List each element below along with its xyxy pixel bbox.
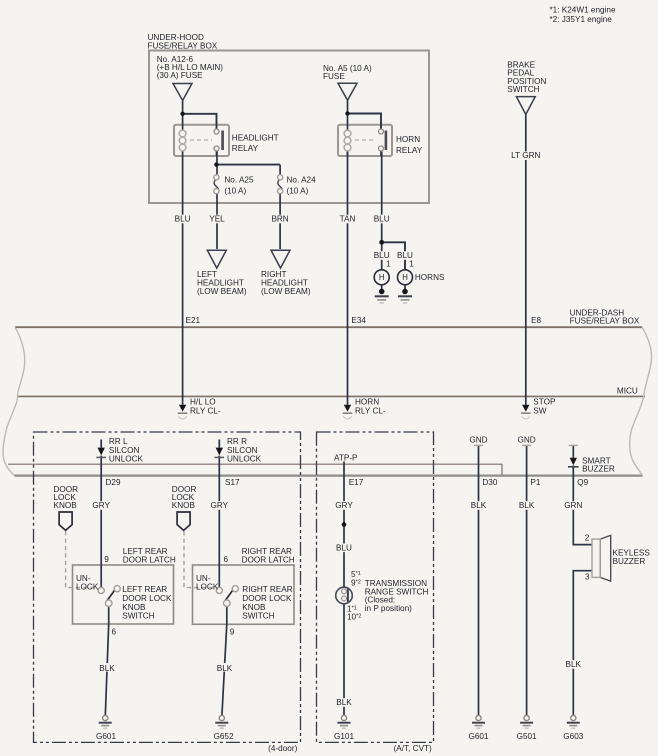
svg-text:UNLOCK: UNLOCK [109,454,144,463]
svg-text:(4-door): (4-door) [268,744,297,753]
svg-text:2: 2 [585,534,590,543]
svg-text:DOOR LOCK: DOOR LOCK [242,594,292,603]
svg-text:UNLOCK: UNLOCK [227,454,262,463]
svg-text:E34: E34 [351,316,366,325]
svg-text:RELAY: RELAY [232,144,259,153]
svg-text:No. A25: No. A25 [224,175,254,184]
svg-text:BUZZER: BUZZER [613,557,646,566]
svg-text:MICU: MICU [617,387,638,396]
svg-text:(10 A): (10 A) [224,186,246,195]
svg-text:*2: J35Y1 engine: *2: J35Y1 engine [550,15,613,24]
svg-text:RLY CL-: RLY CL- [190,406,221,415]
svg-text:S17: S17 [225,478,240,487]
svg-text:LOCK: LOCK [76,582,99,591]
svg-text:*1: K24W1 engine: *1: K24W1 engine [550,5,616,14]
svg-text:GND: GND [517,435,535,444]
svg-text:BLK: BLK [471,501,487,510]
svg-text:9: 9 [230,628,235,637]
svg-text:SW: SW [533,406,546,415]
svg-text:YEL: YEL [209,215,225,224]
svg-text:Q9: Q9 [577,478,588,487]
svg-text:GRY: GRY [335,501,353,510]
svg-text:RELAY: RELAY [396,146,423,155]
svg-text:G101: G101 [334,732,354,741]
svg-text:BUZZER: BUZZER [582,464,615,473]
svg-text:H: H [379,273,385,282]
svg-text:GRY: GRY [92,501,110,510]
svg-text:G603: G603 [563,732,583,741]
svg-text:(30 A) FUSE: (30 A) FUSE [157,71,203,80]
svg-text:STOP: STOP [533,398,556,407]
svg-text:KNOB: KNOB [172,501,196,510]
svg-text:LT GRN: LT GRN [511,151,540,160]
svg-text:6: 6 [112,628,117,637]
svg-text:BLK: BLK [217,664,233,673]
svg-text:KNOB: KNOB [54,501,78,510]
svg-text:DOOR LATCH: DOOR LATCH [242,555,295,564]
svg-text:KNOB: KNOB [242,603,266,612]
svg-text:H/L LO: H/L LO [190,398,216,407]
svg-text:1: 1 [386,260,391,269]
svg-text:HORN: HORN [355,398,379,407]
svg-text:(LOW BEAM): (LOW BEAM) [197,287,247,296]
svg-text:KNOB: KNOB [122,603,146,612]
svg-text:(10 A): (10 A) [287,186,309,195]
svg-text:G652: G652 [213,732,233,741]
svg-text:BLK: BLK [566,660,582,669]
svg-text:E21: E21 [186,316,201,325]
svg-text:G601: G601 [96,732,116,741]
svg-text:P1: P1 [530,478,540,487]
svg-text:TAN: TAN [340,215,356,224]
svg-text:RLY CL-: RLY CL- [355,406,386,415]
svg-text:HORN: HORN [396,135,420,144]
svg-text:BRN: BRN [271,215,288,224]
svg-text:No. A24: No. A24 [287,175,317,184]
svg-text:G501: G501 [517,732,537,741]
svg-text:9: 9 [104,555,109,564]
svg-text:FUSE/RELAY BOX: FUSE/RELAY BOX [148,42,218,51]
svg-text:H: H [402,273,408,282]
svg-text:(LOW BEAM): (LOW BEAM) [261,287,311,296]
svg-text:BLU: BLU [175,215,191,224]
svg-text:3: 3 [585,572,590,581]
svg-text:BLK: BLK [99,664,115,673]
svg-text:FUSE: FUSE [323,72,345,81]
svg-text:E17: E17 [349,478,364,487]
svg-text:LEFT REAR: LEFT REAR [122,585,167,594]
svg-text:HORNS: HORNS [415,273,445,282]
svg-text:FUSE/RELAY BOX: FUSE/RELAY BOX [570,317,640,326]
svg-text:SWITCH: SWITCH [122,612,154,621]
svg-text:E8: E8 [531,316,541,325]
svg-text:LOCK: LOCK [196,582,219,591]
svg-text:D30: D30 [482,478,497,487]
svg-text:BLK: BLK [336,698,352,707]
svg-text:G601: G601 [468,732,488,741]
svg-text:SWITCH: SWITCH [242,612,274,621]
svg-text:BLK: BLK [519,501,535,510]
svg-text:GRY: GRY [210,501,228,510]
svg-text:(A/T, CVT): (A/T, CVT) [394,744,432,753]
svg-text:RIGHT REAR: RIGHT REAR [242,585,292,594]
svg-text:in P position): in P position) [365,604,412,613]
svg-text:SWITCH: SWITCH [507,85,539,94]
svg-text:6: 6 [224,555,229,564]
svg-text:ATP-P: ATP-P [334,453,358,462]
svg-text:GND: GND [469,435,487,444]
svg-text:GRN: GRN [564,501,582,510]
svg-text:1: 1 [409,260,414,269]
svg-text:D29: D29 [106,478,121,487]
svg-text:BLU: BLU [374,215,390,224]
svg-text:DOOR LOCK: DOOR LOCK [122,594,172,603]
svg-text:HEADLIGHT: HEADLIGHT [232,133,279,142]
svg-text:BLU: BLU [336,543,352,552]
svg-text:DOOR LATCH: DOOR LATCH [123,555,176,564]
svg-text:UNDER-HOOD: UNDER-HOOD [148,33,204,42]
